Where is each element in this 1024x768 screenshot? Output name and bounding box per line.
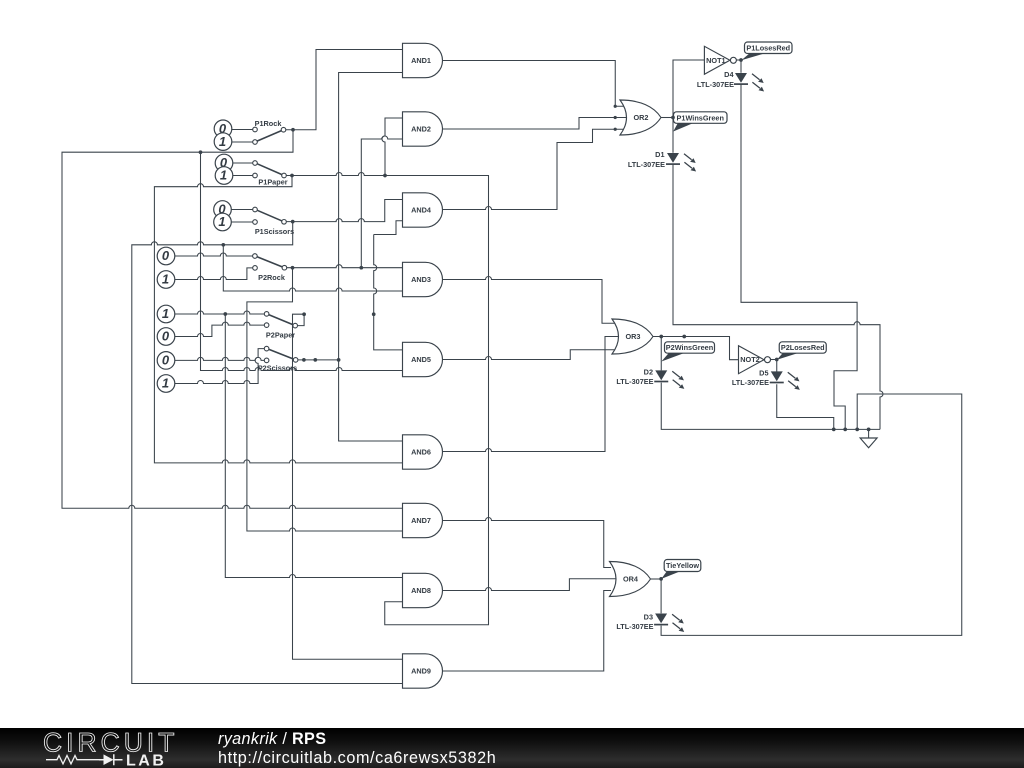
node P2Paper AND5 branch [372, 312, 376, 316]
CircuitLab logo [43, 728, 178, 768]
node P2Rock pole [291, 266, 295, 270]
wire P1Rock 1-feed [231, 141, 253, 143]
AND gate AND8 [403, 573, 443, 607]
wire P1Rock to AND5 in2 [201, 152, 404, 370]
logic input P1Rock-1 value 1 [214, 133, 232, 151]
svg-text:P1LosesRed: P1LosesRed [746, 43, 790, 52]
LED D2 LTL-307EE [616, 367, 684, 389]
svg-text:1: 1 [218, 214, 225, 229]
wire P2Rock 1-feed [174, 268, 253, 280]
wire P2Scissors to AND6 in1 [339, 360, 403, 441]
wire P1Scissors branch to AND9 in2 [132, 222, 403, 684]
svg-text:NOT2: NOT2 [740, 355, 759, 364]
svg-text:D3: D3 [644, 612, 653, 621]
svg-text:NOT1: NOT1 [706, 56, 725, 65]
svg-text:0: 0 [162, 329, 170, 344]
wire AND8 out to OR4 in2 [441, 579, 620, 591]
wire P1Paper to AND2 in1 [382, 118, 403, 176]
wire P1Paper pole run to AND8 loop [286, 173, 488, 625]
wire AND8 in1 riser [225, 314, 403, 578]
wire D4 anode [740, 60, 742, 73]
svg-text:LTL-307EE: LTL-307EE [628, 160, 665, 169]
svg-text:0: 0 [162, 353, 170, 368]
switch SW P2Scissors [258, 346, 298, 372]
node P2WinsGreen [659, 335, 663, 339]
svg-text:0: 0 [162, 248, 170, 263]
LED D5 LTL-307EE [732, 368, 800, 390]
wire AND3 out to OR3 in1 [441, 277, 617, 324]
svg-text:AND5: AND5 [411, 355, 431, 364]
svg-text:LTL-307EE: LTL-307EE [697, 80, 734, 89]
svg-text:1: 1 [220, 168, 227, 183]
node P2WinsGreen b [682, 335, 686, 339]
node P2Paper AND8 branch [223, 312, 227, 316]
logic input P1Rock-0 value 0 [214, 120, 232, 138]
NOT gate NOT1 [704, 46, 736, 74]
switch SW P2Rock [253, 254, 287, 282]
wire D1 anode [672, 118, 674, 153]
node P2Scissors pole b [313, 358, 317, 362]
node P1Paper AND2 branch [383, 174, 387, 178]
OR gate OR2 [614, 100, 661, 135]
svg-text:P1Scissors: P1Scissors [255, 227, 294, 236]
OR gate OR3 [612, 319, 653, 354]
node GND D4 [843, 428, 847, 432]
wire AND1 out to OR2 in1 [441, 61, 626, 107]
node P2Paper pole [302, 312, 306, 316]
LED D1 LTL-307EE [628, 150, 696, 172]
AND gate AND5 [403, 342, 443, 376]
wire P1Rock 0-feed [231, 129, 253, 131]
logic input P1Paper-1 value 1 [215, 167, 233, 185]
node P1Scissors AND3 branch [221, 243, 225, 247]
NOT gate NOT2 [739, 346, 771, 374]
svg-text:AND2: AND2 [411, 125, 431, 134]
wire P1Paper 0-feed [232, 162, 253, 164]
wire P1Scissors to AND3 in2 [223, 245, 403, 291]
node GND stub [867, 428, 871, 432]
switch SW P1Scissors [253, 207, 294, 236]
wire D3 anode [660, 579, 662, 613]
AND gate AND4 [403, 193, 443, 227]
net label P2LosesRed [777, 342, 826, 360]
wire OR2 out [661, 117, 674, 119]
node P2Scissors pole a [302, 358, 306, 362]
svg-text:P1Rock: P1Rock [255, 119, 283, 128]
node P1LosesRed [739, 58, 743, 62]
svg-text:AND6: AND6 [411, 448, 431, 457]
wire D4 cathode loop to rail [741, 84, 857, 430]
wire NOT1 out [737, 59, 741, 61]
node P1Rock pole [291, 128, 295, 132]
svg-text:AND1: AND1 [411, 56, 431, 65]
wire AND9 out to OR4 in3 [441, 591, 611, 672]
wire P1Paper to AND6 in2 [154, 176, 403, 463]
OR gate OR4 [610, 562, 651, 597]
logic input P2Rock-0 value 0 [157, 247, 175, 265]
wire P2Paper 0-feed [174, 322, 264, 336]
wire D2 anode [660, 337, 662, 371]
AND gate AND1 [403, 43, 443, 77]
wire P2Rock 0-feed [174, 253, 253, 256]
svg-text:AND8: AND8 [411, 586, 431, 595]
svg-text:P2Scissors: P2Scissors [258, 364, 297, 373]
logic input P2Paper-0 value 0 [157, 328, 175, 346]
wire P1Paper 1-feed [232, 175, 253, 177]
svg-text:LTL-307EE: LTL-307EE [616, 622, 653, 631]
AND gate AND3 [403, 262, 443, 296]
svg-text:AND3: AND3 [411, 275, 431, 284]
svg-text:P2Rock: P2Rock [258, 273, 286, 282]
wire OR3 out to NOT2 [653, 337, 739, 360]
svg-text:LTL-307EE: LTL-307EE [732, 378, 769, 387]
svg-text:1: 1 [162, 306, 169, 321]
switch SW P2Paper [264, 312, 297, 340]
wire P2Scissors 0-feed [174, 357, 264, 360]
ground [860, 438, 877, 448]
net label P2WinsGreen [661, 342, 714, 362]
net label P1WinsGreen [673, 112, 727, 132]
net label TieYellow [661, 560, 701, 579]
wire D5 cathode to rail [777, 384, 834, 429]
node P2LosesRed [775, 358, 779, 362]
wire P2Rock to AND7 in2 [247, 268, 403, 531]
wire P1Rock branch down-left [62, 130, 403, 509]
node P1WinsGreen [671, 116, 675, 120]
net label P1LosesRed [741, 42, 792, 60]
LED D3 LTL-307EE [616, 612, 684, 632]
logic input P1Paper-0 value 0 [215, 154, 233, 172]
svg-text:AND9: AND9 [411, 667, 431, 676]
svg-text:P2WinsGreen: P2WinsGreen [666, 343, 713, 352]
svg-text:D2: D2 [644, 367, 653, 376]
switch SW P1Paper [253, 161, 288, 187]
node P2Rock AND2 branch [359, 266, 363, 270]
wire P2Paper to AND4 in2 and AND5 in1 [374, 235, 403, 350]
wire P2Scissors 1-feed [174, 349, 264, 384]
wire P2Paper to AND9 in1 [293, 314, 404, 659]
wire D5 anode [776, 360, 778, 373]
node GND D5 [832, 428, 836, 432]
svg-text:P2Paper: P2Paper [266, 330, 295, 339]
svg-text:P2LosesRed: P2LosesRed [781, 343, 825, 352]
wire AND7 out to OR4 in1 [441, 518, 611, 568]
wire P1Scissors 1-feed [231, 221, 253, 223]
wire P2Scissors pole run [298, 359, 339, 361]
wire P2Scissors to AND1 in2 [339, 73, 403, 360]
node TieYellow [659, 577, 663, 581]
svg-text:http://circuitlab.com/ca6rewsx: http://circuitlab.com/ca6rewsx5382h [218, 749, 496, 767]
logic input P2Scissors-0 value 0 [157, 352, 175, 370]
svg-text:1: 1 [162, 376, 169, 391]
wire AND5 out to OR3 in3 [441, 350, 617, 360]
svg-text:ryankrik / RPS: ryankrik / RPS [218, 730, 326, 748]
svg-text:1: 1 [219, 134, 226, 149]
AND gate AND9 [403, 654, 443, 688]
svg-text:OR2: OR2 [633, 113, 648, 122]
node P1Scissors pole [291, 220, 295, 224]
AND gate AND2 [403, 112, 443, 146]
wire NOT2 out [771, 359, 777, 361]
svg-text:D1: D1 [655, 150, 664, 159]
svg-text:OR3: OR3 [625, 332, 640, 341]
svg-text:AND4: AND4 [411, 206, 432, 215]
node P1Paper pole [290, 174, 294, 178]
svg-text:AND7: AND7 [411, 516, 431, 525]
svg-text:D4: D4 [724, 70, 734, 79]
logic input P2Paper-1 value 1 [157, 305, 175, 323]
svg-text:LAB: LAB [126, 752, 166, 768]
wire AND2 out to OR2 in2 [441, 118, 628, 130]
svg-text:1: 1 [162, 272, 169, 287]
wire P2Rock pole to AND3 in1 [287, 265, 403, 268]
wire P1Rock pole to AND1 in1 [286, 50, 403, 130]
logic input P2Scissors-1 value 1 [157, 375, 175, 393]
wire P2Rock to AND2 in2 [361, 136, 403, 268]
wire ground stub [868, 429, 870, 438]
wire rail loop to D3 [661, 394, 962, 635]
AND gate AND7 [403, 503, 443, 537]
logic input P2Rock-1 value 1 [157, 271, 175, 289]
svg-text:OR4: OR4 [623, 575, 639, 584]
svg-text:P1Paper: P1Paper [258, 178, 287, 187]
wire P1Scissors pole to AND4 in1 [286, 200, 403, 222]
logic input P1Scissors-0 value 0 [214, 201, 232, 219]
wire AND4 in2 jog [374, 221, 403, 235]
switch SW P1Rock [253, 119, 286, 144]
wire AND4 out to OR2 in3 [441, 129, 626, 209]
svg-text:TieYellow: TieYellow [666, 561, 699, 570]
node P1Rock branch [199, 150, 203, 154]
wire P2Paper 1-feed [174, 311, 264, 314]
wire net P1WinsGreen riser to NOT1 [673, 60, 705, 118]
node P2Scissors AND1 branch [337, 358, 341, 362]
node GND loop [855, 428, 859, 432]
LED D4 LTL-307EE [697, 70, 764, 92]
svg-text:P1WinsGreen: P1WinsGreen [677, 113, 724, 122]
wire AND6 out to OR3 in2 [441, 337, 621, 452]
AND gate AND6 [403, 435, 443, 469]
wire OR4 out [650, 578, 661, 580]
wire D2 cathode to ground rail [661, 383, 880, 430]
wire P1Scissors 0-feed [231, 209, 253, 211]
footer bar [0, 728, 1024, 768]
wire P2Paper pole jog [297, 314, 304, 325]
svg-text:LTL-307EE: LTL-307EE [616, 377, 653, 386]
wire D1 cathode to rail [673, 164, 883, 429]
logic input P1Scissors-1 value 1 [214, 213, 232, 231]
svg-text:D5: D5 [759, 368, 768, 377]
